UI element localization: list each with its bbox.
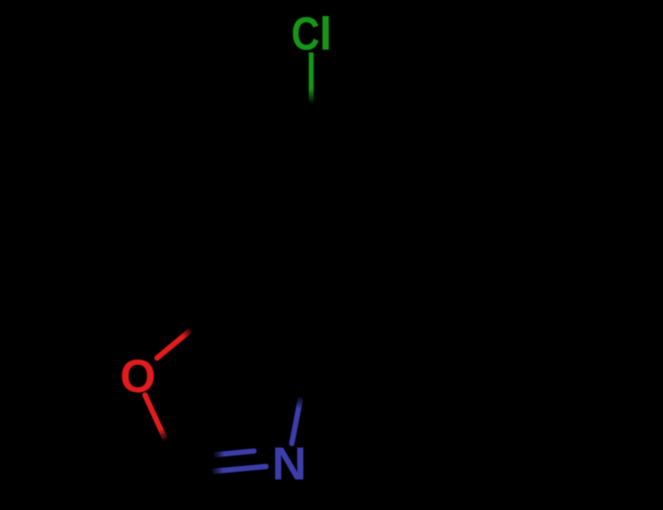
svg-text:l: l <box>319 8 332 60</box>
bond O1-C7a (half, oxygen color) <box>157 329 192 358</box>
svg-text:C: C <box>291 9 319 61</box>
double bond C2=N3 main line (half, nitrogen color) <box>211 467 266 472</box>
atom label Cl (chlorine) <box>291 8 332 61</box>
bond O1-C2 (half, oxygen color) <box>145 395 166 441</box>
bond Cl-C7 (half, chlorine color) <box>309 53 314 105</box>
svg-text:N: N <box>272 437 307 489</box>
double bond C2=N3 inner line (half, nitrogen color) <box>213 451 254 455</box>
svg-text:O: O <box>120 350 156 402</box>
bond N3-C3a (half, nitrogen color) <box>292 396 301 444</box>
